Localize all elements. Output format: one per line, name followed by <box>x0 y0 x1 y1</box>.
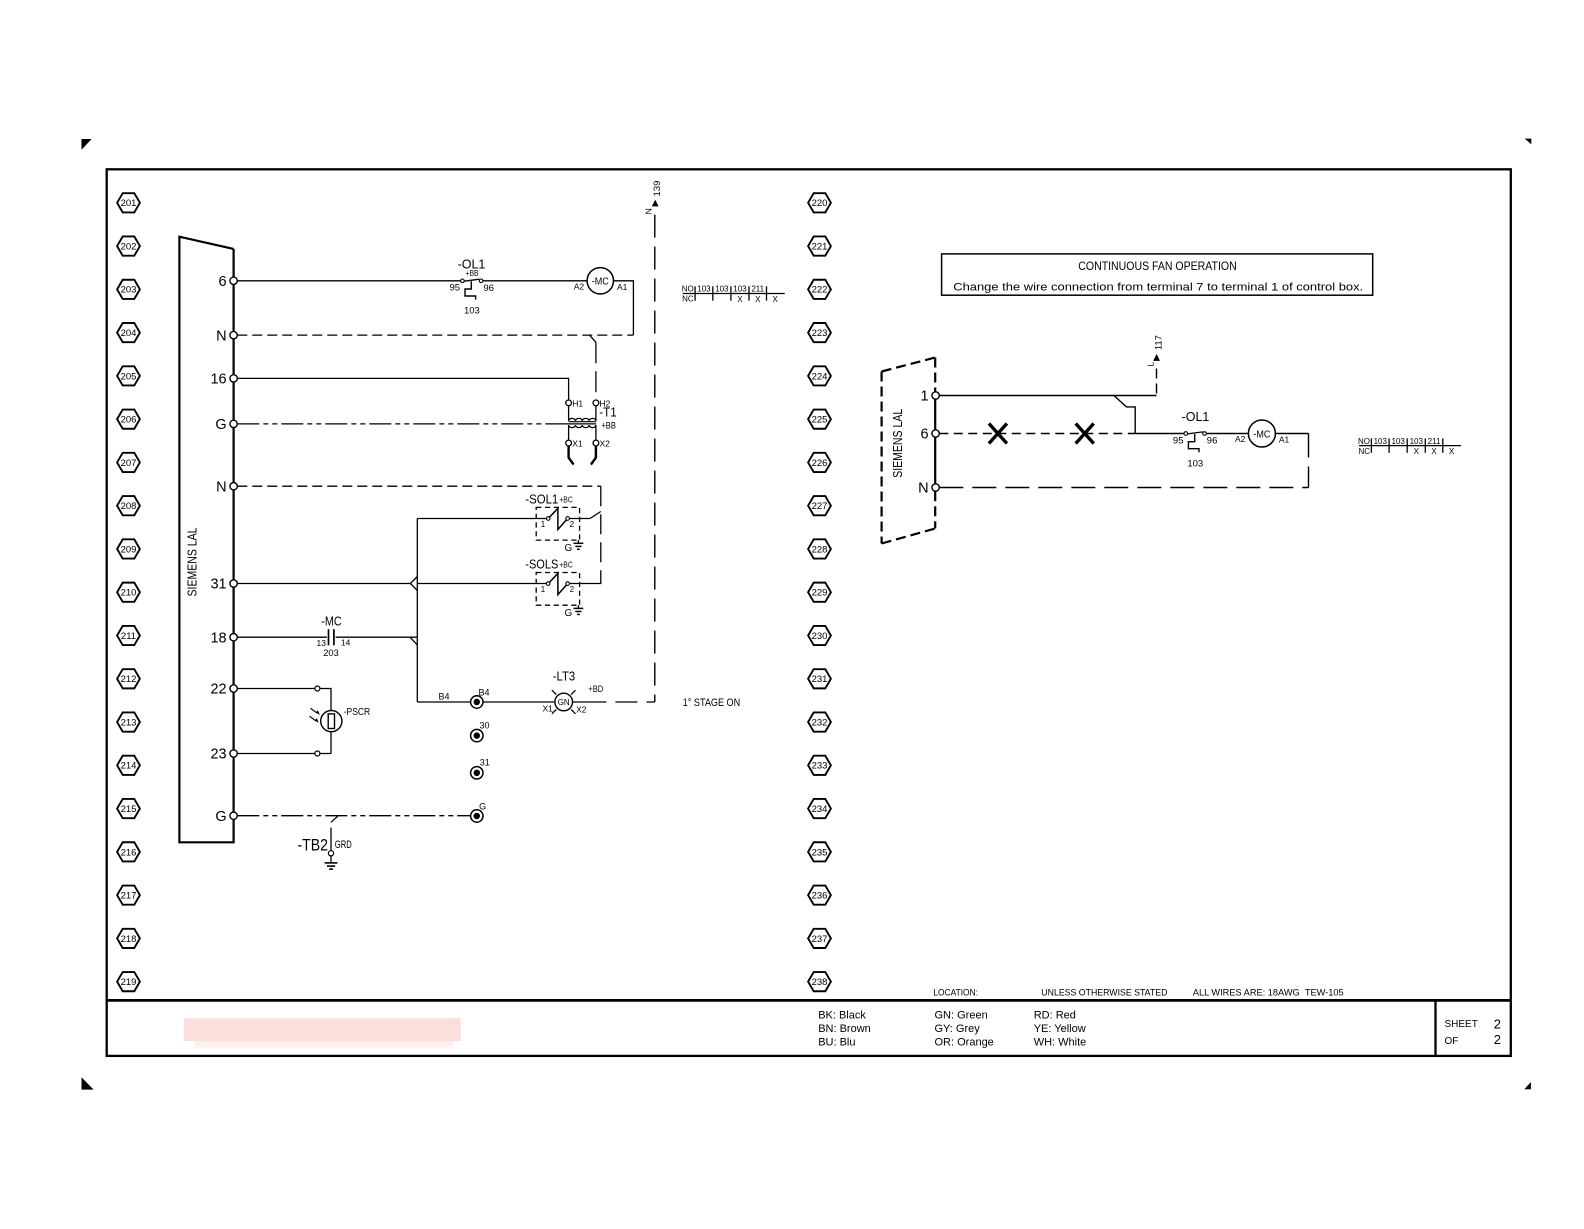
svg-text:234: 234 <box>812 804 828 815</box>
line number 228 <box>808 539 831 558</box>
removal X mark 2 <box>1076 424 1094 444</box>
wire 18 to MC contact <box>237 636 327 638</box>
svg-text:224: 224 <box>812 371 828 382</box>
pink redaction box <box>184 1018 461 1047</box>
svg-text:215: 215 <box>121 804 137 815</box>
sheet number block <box>1445 1017 1502 1048</box>
svg-text:GN: GN <box>558 698 570 707</box>
svg-text:232: 232 <box>812 717 828 728</box>
svg-text:236: 236 <box>812 891 828 902</box>
wire 23 to PSCR <box>237 753 331 755</box>
corner mark top-left <box>82 139 92 150</box>
wire OL1 to MC coil <box>483 280 587 282</box>
wire 16 to T1 H1 <box>237 378 568 400</box>
wire N (dashed) <box>237 334 633 336</box>
svg-text:-T1: -T1 <box>599 406 617 420</box>
svg-text:222: 222 <box>812 285 828 296</box>
wire MC A1 to N wire <box>614 281 634 335</box>
svg-text:B4: B4 <box>438 692 449 702</box>
svg-text:+BC: +BC <box>559 560 573 570</box>
contact cross reference table (left) <box>682 285 785 304</box>
svg-text:117: 117 <box>1154 335 1165 350</box>
svg-text:221: 221 <box>812 241 828 252</box>
wire riser to L 117 (dashed) <box>1156 369 1158 396</box>
ground terminal TB2 GRD <box>325 816 339 869</box>
wire junction to OL1 (right) <box>1135 433 1184 435</box>
svg-text:LOCATION:: LOCATION: <box>933 988 978 999</box>
svg-text:31: 31 <box>210 577 226 593</box>
corner mark bottom-left <box>82 1077 94 1089</box>
svg-text:103: 103 <box>464 306 480 317</box>
svg-text:-MC: -MC <box>1253 428 1270 440</box>
off-sheet arrow N 139 <box>644 181 664 215</box>
svg-text:UNLESS OTHERWISE STATED: UNLESS OTHERWISE STATED <box>1041 988 1167 999</box>
svg-text:1° STAGE ON: 1° STAGE ON <box>683 697 741 709</box>
svg-text:N: N <box>216 328 226 344</box>
terminal 1 <box>921 389 940 405</box>
svg-text:-SOL1: -SOL1 <box>525 492 558 506</box>
note box CONTINUOUS FAN OPERATION <box>942 254 1373 295</box>
line number 221 <box>808 236 831 255</box>
svg-text:SIEMENS LAL: SIEMENS LAL <box>185 528 200 597</box>
svg-text:205: 205 <box>121 371 137 382</box>
svg-text:229: 229 <box>812 588 828 599</box>
svg-text:16: 16 <box>210 372 226 388</box>
line number 220 <box>808 193 831 212</box>
svg-text:GN: Green: GN: Green <box>935 1010 988 1022</box>
svg-text:X: X <box>1431 447 1437 456</box>
svg-text:237: 237 <box>812 934 828 945</box>
terminal block SIEMENS LAL (left) <box>179 237 233 843</box>
line number 217 <box>117 886 140 905</box>
contact MC 13-14 <box>321 614 342 646</box>
svg-text:-SOLS: -SOLS <box>525 558 558 572</box>
svg-text:208: 208 <box>121 501 137 512</box>
plug contact on wire 23 <box>315 751 320 756</box>
svg-text:X: X <box>737 295 743 304</box>
wire 6 (dashed, disconnected) <box>939 433 1135 435</box>
svg-text:H1: H1 <box>572 398 583 408</box>
line number 233 <box>808 756 831 775</box>
line number 218 <box>117 929 140 948</box>
line number 215 <box>117 799 140 818</box>
svg-text:X2: X2 <box>600 438 611 448</box>
line number 223 <box>808 323 831 342</box>
svg-text:238: 238 <box>812 977 828 988</box>
svg-text:2: 2 <box>1494 1032 1501 1047</box>
indicator light LT3 GN +BD <box>552 669 604 713</box>
line number 203 <box>117 280 140 299</box>
svg-text:BK: Black: BK: Black <box>818 1010 866 1022</box>
svg-text:201: 201 <box>121 198 137 209</box>
line number 205 <box>117 366 140 385</box>
line number 238 <box>808 972 831 991</box>
svg-text:230: 230 <box>812 631 828 642</box>
svg-text:216: 216 <box>121 847 137 858</box>
terminal N <box>216 479 237 495</box>
terminal block SIEMENS LAL (right, dashed) <box>882 358 936 544</box>
line number 229 <box>808 583 831 602</box>
svg-text:22: 22 <box>210 682 226 698</box>
svg-text:95: 95 <box>450 283 461 294</box>
svg-text:103: 103 <box>1391 437 1405 446</box>
terminal 31 <box>210 577 237 593</box>
svg-text:228: 228 <box>812 544 828 555</box>
svg-text:103: 103 <box>733 285 747 294</box>
svg-text:226: 226 <box>812 458 828 469</box>
terminal 6 <box>219 274 238 290</box>
wire 22 to PSCR <box>237 689 331 754</box>
svg-text:NC: NC <box>1358 447 1370 456</box>
line number 232 <box>808 712 831 731</box>
terminal 16 <box>210 372 237 388</box>
svg-text:-MC: -MC <box>321 614 342 629</box>
line number 209 <box>117 539 140 558</box>
svg-text:103: 103 <box>697 285 711 294</box>
line number 225 <box>808 410 831 429</box>
ground of SOL1 <box>565 540 584 554</box>
wire colour legend <box>818 1010 1086 1049</box>
line number 237 <box>808 929 831 948</box>
line number 234 <box>808 799 831 818</box>
svg-text:+BC: +BC <box>559 494 573 504</box>
svg-text:207: 207 <box>121 458 137 469</box>
line number 222 <box>808 280 831 299</box>
terminal G <box>215 417 237 433</box>
svg-text:6: 6 <box>219 274 227 290</box>
svg-text:+BB: +BB <box>601 421 616 431</box>
svg-text:96: 96 <box>483 283 494 294</box>
svg-text:G: G <box>565 543 573 554</box>
svg-text:30: 30 <box>479 720 489 730</box>
corner mark top-right <box>1525 139 1532 145</box>
off-sheet arrow L 117 <box>1146 335 1165 367</box>
svg-text:103: 103 <box>1374 437 1388 446</box>
svg-text:N: N <box>644 208 654 214</box>
svg-text:209: 209 <box>121 544 137 555</box>
svg-text:SIEMENS LAL: SIEMENS LAL <box>890 409 905 478</box>
line number 211 <box>117 626 140 645</box>
svg-text:A1: A1 <box>1279 435 1290 445</box>
svg-text:96: 96 <box>1207 436 1218 447</box>
svg-text:RD: Red: RD: Red <box>1034 1010 1076 1022</box>
svg-text:-MC: -MC <box>592 276 609 288</box>
line number 212 <box>117 669 140 688</box>
line number 207 <box>117 453 140 472</box>
svg-text:NO: NO <box>1358 437 1370 446</box>
contact cross reference table (right) <box>1358 437 1461 456</box>
wire 31 <box>237 583 410 585</box>
wire 1 (solid) <box>939 395 1156 397</box>
grommet G <box>471 801 487 822</box>
svg-text:1: 1 <box>541 520 546 529</box>
wire G (dash-dot) to T1 shield <box>237 423 549 425</box>
junction fork at 31 <box>410 577 417 591</box>
svg-text:BN: Brown: BN: Brown <box>818 1023 871 1035</box>
svg-text:213: 213 <box>121 717 137 728</box>
svg-text:202: 202 <box>121 241 137 252</box>
line number 216 <box>117 842 140 861</box>
svg-text:211: 211 <box>751 285 764 294</box>
svg-text:GRD: GRD <box>335 839 352 851</box>
line number 230 <box>808 626 831 645</box>
svg-text:14: 14 <box>341 638 351 648</box>
terminal N <box>216 328 237 344</box>
svg-text:A2: A2 <box>1235 434 1246 444</box>
svg-text:223: 223 <box>812 328 828 339</box>
terminal 23 <box>210 747 237 763</box>
svg-text:CONTINUOUS FAN OPERATION: CONTINUOUS FAN OPERATION <box>1078 259 1236 273</box>
svg-text:WH: White: WH: White <box>1034 1036 1087 1048</box>
wire OL1 to MC (right) <box>1206 433 1248 435</box>
svg-text:NO: NO <box>682 285 694 294</box>
line number 214 <box>117 756 140 775</box>
svg-text:6: 6 <box>921 427 929 443</box>
svg-text:103: 103 <box>715 285 729 294</box>
line number 219 <box>117 972 140 991</box>
plug contact on wire 22 <box>315 686 320 691</box>
svg-text:212: 212 <box>121 674 137 685</box>
wire jog 1 to 6 line <box>1114 396 1135 434</box>
svg-text:+BD: +BD <box>588 684 603 694</box>
wire jog N to T1 H2 <box>589 335 596 400</box>
svg-text:211: 211 <box>121 631 136 642</box>
wire bus to SOL1 <box>417 518 546 520</box>
svg-text:A2: A2 <box>574 282 585 292</box>
svg-text:SHEET: SHEET <box>1445 1019 1478 1030</box>
line number 227 <box>808 496 831 515</box>
line number 210 <box>117 583 140 602</box>
svg-text:211: 211 <box>1428 437 1441 446</box>
svg-text:214: 214 <box>121 761 137 772</box>
photocell PSCR <box>310 706 371 732</box>
svg-text:B4: B4 <box>478 688 489 698</box>
contactor coil MC (right) <box>1235 420 1290 447</box>
svg-text:18: 18 <box>210 630 226 646</box>
terminal N <box>918 481 939 497</box>
svg-text:227: 227 <box>812 501 828 512</box>
removal X mark 1 <box>989 424 1007 444</box>
svg-text:139: 139 <box>652 181 663 197</box>
wire N riser to sheet 139 (dashed) <box>654 215 656 702</box>
terminal 6 <box>921 427 940 443</box>
line number 236 <box>808 886 831 905</box>
svg-text:233: 233 <box>812 761 828 772</box>
svg-text:2: 2 <box>570 520 575 529</box>
wire vertical bus to SOL1/SOLS (dashed) <box>592 486 601 583</box>
wire 6 to OL1 <box>237 280 462 282</box>
terminal G <box>215 809 237 825</box>
wire SOLS pin2 out <box>569 583 592 585</box>
svg-text:N: N <box>918 481 928 497</box>
wire MC contact to bus <box>336 636 418 638</box>
ground of SOLS <box>565 605 584 619</box>
svg-text:-OL1: -OL1 <box>1182 410 1210 424</box>
svg-text:N: N <box>216 479 226 495</box>
svg-text:231: 231 <box>812 674 828 685</box>
svg-text:203: 203 <box>323 648 339 659</box>
line number 213 <box>117 712 140 731</box>
svg-text:A1: A1 <box>617 282 628 292</box>
line number 206 <box>117 410 140 429</box>
svg-text:-PSCR: -PSCR <box>344 706 371 718</box>
svg-text:X1: X1 <box>572 438 583 448</box>
transformer T1 +BB <box>549 400 599 465</box>
wire bus to SOLS <box>417 583 546 585</box>
svg-text:2: 2 <box>1494 1017 1501 1032</box>
contactor coil MC (left) <box>574 268 628 294</box>
svg-text:-LT3: -LT3 <box>553 669 576 683</box>
wire SOL1 pin2 out <box>569 518 590 520</box>
line number 202 <box>117 236 140 255</box>
svg-text:GY: Grey: GY: Grey <box>935 1023 981 1035</box>
line number 204 <box>117 323 140 342</box>
line number 208 <box>117 496 140 515</box>
overload relay OL1 +BB <box>450 258 494 317</box>
solenoid SOL1 +BC <box>525 492 579 540</box>
grommet 31 <box>471 758 490 780</box>
svg-text:+BB: +BB <box>466 268 479 278</box>
terminal 22 <box>210 682 237 698</box>
line number 201 <box>117 193 140 212</box>
svg-text:2: 2 <box>570 585 575 594</box>
wire SOL1 branch diagonal <box>590 512 601 519</box>
svg-text:206: 206 <box>121 415 137 426</box>
svg-text:X: X <box>1414 447 1420 456</box>
svg-text:204: 204 <box>121 328 137 339</box>
svg-text:219: 219 <box>121 977 137 988</box>
grommet 30 <box>471 720 490 742</box>
svg-text:G: G <box>565 608 573 619</box>
corner mark bottom-right <box>1524 1082 1531 1089</box>
svg-text:210: 210 <box>121 588 137 599</box>
svg-text:X: X <box>755 295 761 304</box>
wire N (right, dashed) <box>939 487 1308 489</box>
svg-text:218: 218 <box>121 934 137 945</box>
terminal 18 <box>210 630 237 646</box>
wire B4 (bus to LT3) <box>417 701 555 703</box>
svg-text:225: 225 <box>812 415 828 426</box>
svg-text:103: 103 <box>1187 458 1203 469</box>
wire MC A1 to N (right, dashed corner) <box>1275 434 1308 488</box>
svg-text:95: 95 <box>1173 435 1184 446</box>
line number 235 <box>808 842 831 861</box>
grommet B4 <box>471 688 490 709</box>
svg-text:X2: X2 <box>576 704 587 714</box>
svg-text:X1: X1 <box>542 704 553 714</box>
svg-text:235: 235 <box>812 847 828 858</box>
svg-text:1: 1 <box>541 585 546 594</box>
svg-text:X: X <box>773 295 779 304</box>
overload relay OL1 (right) <box>1173 410 1217 469</box>
svg-text:103: 103 <box>1410 437 1424 446</box>
junction fork at 18 <box>411 638 418 645</box>
svg-text:G: G <box>215 417 226 433</box>
svg-text:G: G <box>215 809 226 825</box>
svg-text:ALL WIRES ARE: 18AWG TEW-105: ALL WIRES ARE: 18AWG TEW-105 <box>1193 988 1344 999</box>
svg-text:220: 220 <box>812 198 828 209</box>
svg-text:31: 31 <box>480 758 490 768</box>
svg-text:G: G <box>479 801 486 811</box>
line number 231 <box>808 669 831 688</box>
svg-text:1: 1 <box>921 389 929 405</box>
svg-text:YE: Yellow: YE: Yellow <box>1034 1023 1086 1035</box>
wire N2 (dashed) <box>237 485 601 487</box>
svg-text:L: L <box>1146 362 1156 367</box>
svg-text:OF: OF <box>1445 1036 1459 1047</box>
line number 226 <box>808 453 831 472</box>
svg-text:BU: Blu: BU: Blu <box>818 1036 855 1048</box>
svg-text:OR: Orange: OR: Orange <box>935 1036 994 1048</box>
solenoid SOLS +BC <box>525 558 579 606</box>
svg-text:217: 217 <box>121 891 137 902</box>
svg-text:203: 203 <box>121 285 137 296</box>
wire LT3 to N bus <box>573 701 655 703</box>
svg-text:X: X <box>1449 447 1455 456</box>
line number 224 <box>808 366 831 385</box>
svg-text:-TB2: -TB2 <box>298 836 329 855</box>
svg-text:23: 23 <box>210 747 226 763</box>
vertical bus wire <box>416 519 418 703</box>
svg-text:NC: NC <box>682 295 694 304</box>
wire G (dash-dot) to grommet <box>237 815 470 817</box>
svg-text:13: 13 <box>317 638 327 648</box>
svg-text:Change the wire connection fro: Change the wire connection from terminal… <box>953 281 1363 293</box>
